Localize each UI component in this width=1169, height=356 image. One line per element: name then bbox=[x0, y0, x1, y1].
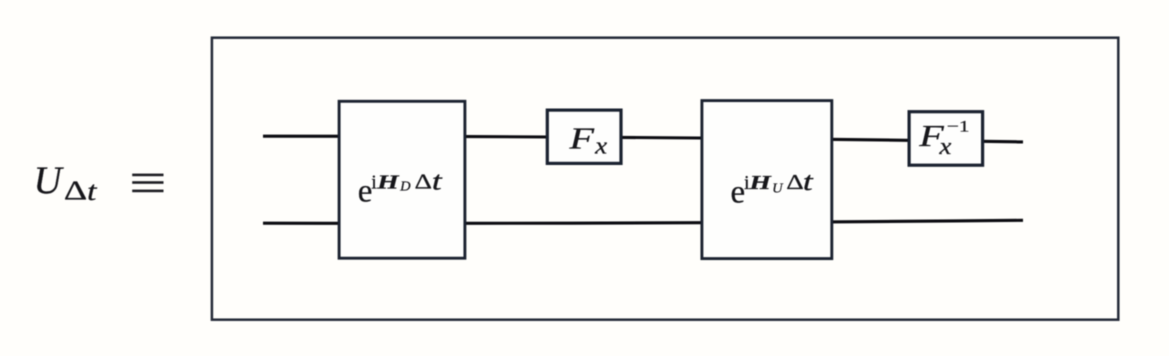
svg-text:e: e bbox=[731, 175, 746, 211]
svg-text:t: t bbox=[432, 166, 443, 195]
svg-text:e: e bbox=[358, 174, 373, 210]
svg-text:t: t bbox=[803, 167, 814, 196]
svg-text:H: H bbox=[748, 172, 773, 194]
svg-text:H: H bbox=[376, 172, 401, 194]
svg-text:U: U bbox=[34, 159, 65, 202]
svg-text:F: F bbox=[568, 120, 595, 155]
svg-text:x: x bbox=[938, 134, 952, 160]
svg-text:D: D bbox=[399, 179, 411, 194]
svg-text:Δ: Δ bbox=[786, 170, 804, 194]
svg-text:Δ: Δ bbox=[415, 170, 433, 194]
svg-text:Δ: Δ bbox=[64, 176, 88, 206]
svg-text:x: x bbox=[594, 133, 608, 159]
svg-text:U: U bbox=[772, 182, 783, 197]
svg-text:−1: −1 bbox=[947, 119, 970, 136]
